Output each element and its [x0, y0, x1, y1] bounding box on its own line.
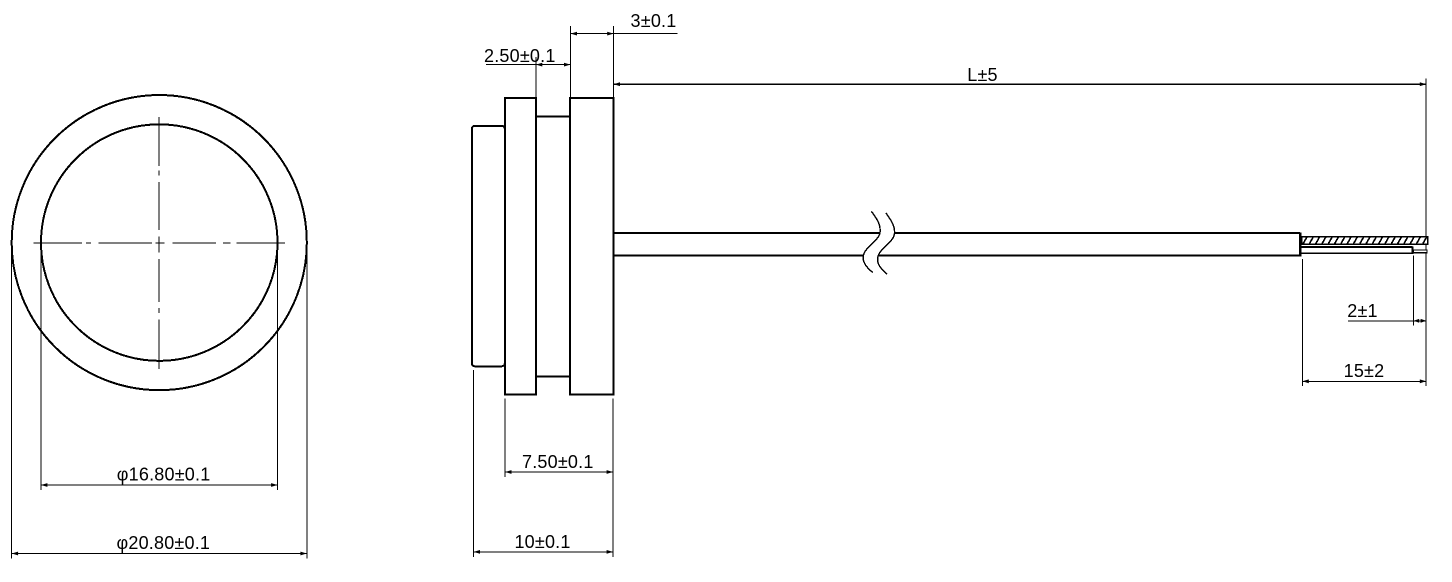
svg-text:10±0.1: 10±0.1 — [514, 532, 570, 552]
svg-text:15±2: 15±2 — [1344, 361, 1385, 381]
svg-text:3±0.1: 3±0.1 — [631, 11, 677, 31]
svg-text:L±5: L±5 — [967, 65, 998, 85]
svg-text:2±1: 2±1 — [1347, 301, 1378, 321]
svg-text:2.50±0.1: 2.50±0.1 — [484, 46, 556, 66]
svg-text:φ20.80±0.1: φ20.80±0.1 — [116, 533, 210, 553]
svg-text:7.50±0.1: 7.50±0.1 — [522, 452, 594, 472]
svg-text:φ16.80±0.1: φ16.80±0.1 — [117, 464, 211, 484]
